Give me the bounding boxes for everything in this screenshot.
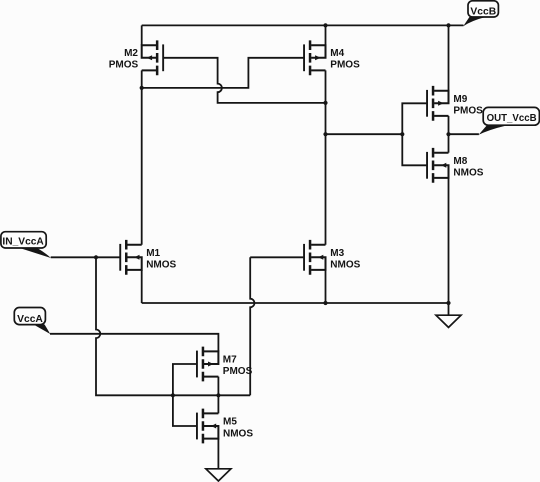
svg-text:PMOS: PMOS xyxy=(109,60,139,71)
wire: M4 source feed from rail xyxy=(325,25,327,45)
wire: VccB top rail xyxy=(142,24,464,26)
wire: M2 gate to M4 drain (hop over cross wire) xyxy=(163,58,326,103)
wire: node to M9/M8 gates xyxy=(326,133,403,135)
ground (right) xyxy=(436,315,461,327)
wire: M9 drain to M8 drain xyxy=(448,116,450,153)
node: M7/M5 gates on bias wire xyxy=(171,393,175,397)
wire: input branch down (hop over VccA wire) xyxy=(96,257,250,395)
svg-text:NMOS: NMOS xyxy=(146,259,176,270)
svg-text:VccB: VccB xyxy=(470,7,496,18)
wire: M2 source feed from rail xyxy=(141,25,143,45)
wire: M7 gate down to bias node xyxy=(173,364,197,395)
svg-text:M1: M1 xyxy=(146,248,160,259)
wire: M5 gate up to bias node xyxy=(173,395,197,426)
label IN_VccA xyxy=(19,248,51,258)
ground (bottom) xyxy=(206,469,231,481)
svg-text:PMOS: PMOS xyxy=(223,366,253,377)
wire: M3 source down xyxy=(325,270,327,303)
wire: M5 source down to ground xyxy=(217,439,219,469)
svg-text:M4: M4 xyxy=(330,48,344,59)
wire: M3 gate lead xyxy=(250,256,304,258)
svg-text:NMOS: NMOS xyxy=(330,259,360,270)
svg-text:M7: M7 xyxy=(223,355,237,366)
wire: M1 source down xyxy=(141,270,143,303)
transistor M3 NMOS xyxy=(303,240,325,275)
svg-text:OUT_VccB: OUT_VccB xyxy=(487,113,537,124)
svg-text:M3: M3 xyxy=(330,248,344,259)
wire: M9 gate tie M8 gate xyxy=(402,103,426,165)
node: input branch xyxy=(94,255,98,259)
svg-text:M2: M2 xyxy=(124,48,138,59)
node: rail / M4 source xyxy=(323,23,327,27)
transistor M1 NMOS xyxy=(119,240,141,275)
node: M4-M3 column / out row xyxy=(323,132,327,136)
transistor M5 NMOS xyxy=(196,409,218,444)
wire: M4 drain to M3 drain xyxy=(325,70,327,244)
svg-text:VccA: VccA xyxy=(17,314,43,325)
node: output xyxy=(446,132,450,136)
node: M2 drain junction xyxy=(140,86,144,90)
wire: M2 drain to M4 gate xyxy=(142,58,305,88)
node: M4 drain / cross couple xyxy=(323,101,327,105)
node: rail / VccB xyxy=(446,23,450,27)
svg-text:M8: M8 xyxy=(453,156,467,167)
node: M3 source on rail xyxy=(323,301,327,305)
label VccB xyxy=(463,17,486,26)
svg-text:M9: M9 xyxy=(453,94,467,105)
wire: IN_VccA to M1 gate xyxy=(51,256,121,258)
svg-text:NMOS: NMOS xyxy=(223,428,253,439)
wire: M9 source feed from rail xyxy=(448,25,450,90)
transistor M7 PMOS xyxy=(196,347,218,382)
svg-text:M5: M5 xyxy=(223,417,237,428)
node: M9/M8 gate tie xyxy=(400,132,404,136)
wire: M3 gate down to bias node (hop over bottom rail) xyxy=(250,257,254,395)
wire: M7 drain to M5 drain xyxy=(217,377,219,414)
svg-text:IN_VccA: IN_VccA xyxy=(2,236,44,247)
label VccA xyxy=(33,324,50,334)
wire: VccA to M7 source xyxy=(50,334,218,352)
svg-text:PMOS: PMOS xyxy=(453,105,483,116)
svg-text:PMOS: PMOS xyxy=(330,60,360,71)
transistor M8 NMOS xyxy=(426,148,448,183)
wire: bottom rail to ground xyxy=(142,302,449,304)
wire: M8 source down to ground xyxy=(448,178,450,315)
node: rail at ground xyxy=(446,301,450,305)
transistor M9 PMOS xyxy=(426,86,448,121)
wire: output node to OUT_VccB xyxy=(449,133,479,135)
svg-text:NMOS: NMOS xyxy=(453,167,483,178)
label OUT_VccB xyxy=(479,125,508,135)
wire: M2 drain to M1 drain xyxy=(141,70,143,244)
transistor M4 PMOS xyxy=(303,40,325,75)
transistor M2 PMOS xyxy=(142,40,164,75)
node: M7/M5 drains on bias wire xyxy=(216,393,220,397)
